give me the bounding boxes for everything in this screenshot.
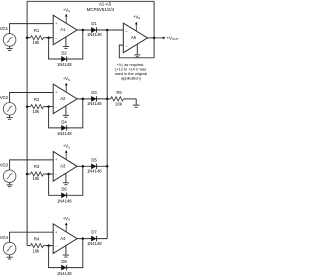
svg-text:1N4148: 1N4148: [57, 199, 72, 204]
svg-text:–: –: [125, 44, 127, 48]
op-amp A5: [123, 23, 147, 53]
wire A5 feedback (output to inverting input): [119, 45, 154, 58]
svg-text:R4: R4: [34, 237, 40, 242]
svg-text:1N4148: 1N4148: [87, 169, 102, 174]
svg-text:–: –: [55, 36, 57, 40]
wire A5 output: [148, 37, 155, 39]
wire VG4 to A4 noninverting input: [10, 232, 54, 242]
junction diode bus / D3: [106, 98, 109, 101]
resistor R5 10k (pulldown): [107, 98, 111, 100]
svg-text:+VS: +VS: [63, 216, 70, 222]
wire A2 output: [77, 98, 107, 100]
svg-text:1N4148: 1N4148: [87, 241, 102, 246]
svg-text:+VS: +VS: [133, 14, 140, 20]
resistor R3 10k: [27, 173, 31, 175]
+V_S supply arrow of A5: [135, 24, 137, 31]
svg-text:A3: A3: [60, 164, 66, 169]
svg-text:D8: D8: [61, 259, 67, 264]
svg-text:R3: R3: [34, 164, 40, 169]
svg-text:1N4148: 1N4148: [57, 62, 72, 67]
ground under VG3: [9, 182, 11, 185]
diode D4 1N4148 (feedback clamp): [61, 125, 66, 130]
svg-text:A1: A1: [60, 27, 66, 32]
svg-text:1N4148: 1N4148: [57, 131, 72, 136]
svg-text:VG4: VG4: [0, 235, 9, 240]
junction left bus / R1: [26, 36, 29, 39]
resistor R1 10k: [27, 37, 31, 39]
wire A4 output: [77, 238, 107, 240]
svg-text:D7: D7: [91, 230, 97, 235]
junction left bus / R2: [26, 105, 29, 108]
svg-text:+: +: [55, 158, 57, 162]
svg-text:+: +: [125, 30, 127, 34]
svg-text:VG3: VG3: [0, 163, 9, 168]
wire left feedback bus (V_OUT to R1-R4): [26, 1, 28, 245]
source VG4: [3, 242, 16, 255]
node A2 output: [82, 98, 85, 101]
source VG2: [3, 103, 16, 116]
+V_S supply arrow of A2: [65, 85, 67, 92]
svg-text:R1: R1: [34, 28, 40, 33]
svg-text:D3: D3: [91, 90, 97, 95]
junction diode bus / D1 / A5 input: [106, 29, 109, 32]
node A4 inverting input: [47, 244, 50, 247]
svg-text:(+12 to +14 V was: (+12 to +14 V was: [115, 68, 146, 72]
op-amp A4: [53, 224, 77, 254]
ground of A4: [65, 246, 67, 255]
svg-text:1N4148: 1N4148: [87, 101, 102, 106]
wire VG2 to A2 noninverting input: [10, 93, 54, 103]
svg-text:1N4148: 1N4148: [87, 32, 102, 37]
node A3 output: [82, 165, 85, 168]
diode D6 1N4148 (feedback clamp): [61, 193, 66, 198]
ground of R5: [135, 99, 137, 105]
wire feedback loop of A1: [49, 30, 83, 59]
node A1 inverting input: [47, 36, 50, 39]
wire top feedback bus: [27, 0, 154, 2]
svg-text:D6: D6: [61, 187, 67, 192]
wire VG1 to A1 noninverting input: [10, 24, 54, 34]
ground under VG1: [9, 46, 11, 49]
wire diode bus to A5 noninverting input: [107, 29, 123, 31]
svg-text:A5: A5: [131, 35, 137, 40]
svg-text:R2: R2: [34, 97, 40, 102]
ground of A3: [65, 174, 67, 183]
svg-text:10k: 10k: [33, 109, 41, 114]
svg-text:MCP6V51/2/4: MCP6V51/2/4: [87, 7, 115, 12]
node A4 output: [82, 237, 85, 240]
svg-text:used in the original: used in the original: [115, 72, 147, 76]
svg-text:R5: R5: [116, 90, 122, 95]
svg-text:VG1: VG1: [0, 26, 9, 31]
svg-text:A2: A2: [60, 96, 66, 101]
source VG3: [3, 170, 16, 183]
ground of A2: [65, 106, 67, 115]
svg-text:10k: 10k: [33, 176, 41, 181]
diode D8 1N4148 (feedback clamp): [61, 265, 66, 270]
wire feedback loop of A4: [49, 239, 83, 268]
svg-text:VG2: VG2: [0, 95, 9, 100]
wire diode-OR bus: [106, 30, 108, 239]
svg-text:1N4148: 1N4148: [57, 271, 72, 276]
svg-text:A4: A4: [60, 236, 66, 241]
svg-text:–: –: [55, 105, 57, 109]
junction left bus / R3: [26, 173, 29, 176]
svg-text:–: –: [55, 245, 57, 249]
resistor R2 10k: [27, 106, 31, 108]
svg-text:–: –: [55, 172, 57, 176]
wire A1 output: [77, 29, 107, 31]
svg-text:+VS: +VS: [63, 7, 70, 13]
ground under VG2: [9, 115, 11, 118]
diode D5 1N4148 (OR diode): [91, 164, 96, 169]
svg-text:10k: 10k: [33, 249, 41, 254]
svg-text:10k: 10k: [33, 40, 41, 45]
junction diode bus / D5: [106, 165, 109, 168]
output arrow +V_OUT: [154, 37, 163, 39]
wire A3 output: [77, 165, 107, 167]
svg-text:10k: 10k: [115, 102, 123, 107]
ground of A5: [136, 44, 138, 55]
svg-text:+: +: [55, 230, 57, 234]
node A2 inverting input: [47, 105, 50, 108]
+V_S supply arrow of A1: [65, 16, 67, 23]
diode D7 1N4148 (OR diode): [91, 236, 96, 241]
wire feedback loop of A3: [49, 166, 83, 195]
ground of A1: [65, 37, 67, 46]
diode D1 1N4148 (OR diode): [91, 27, 96, 32]
op-amp A2: [53, 84, 77, 114]
node A1 output: [82, 29, 85, 32]
svg-text:+VOUT: +VOUT: [167, 35, 179, 41]
svg-text:D1: D1: [91, 21, 97, 26]
wire feedback loop of A2: [49, 99, 83, 128]
svg-text:application): application): [121, 77, 141, 81]
svg-text:+: +: [55, 22, 57, 26]
op-amp A1: [53, 15, 77, 45]
op-amp A3: [53, 152, 77, 182]
diode D3 1N4148 (OR diode): [91, 96, 96, 101]
wire VG3 to A3 noninverting input: [10, 160, 54, 170]
svg-text:D5: D5: [91, 157, 97, 162]
svg-text:A1-A5: A1-A5: [99, 2, 112, 7]
svg-text:+: +: [55, 91, 57, 95]
diode D2 1N4148 (feedback clamp): [61, 56, 66, 61]
svg-text:D2: D2: [61, 50, 67, 55]
wire A5 output bus: [153, 1, 155, 58]
ground under VG4: [9, 255, 11, 258]
source VG1: [3, 34, 16, 47]
svg-text:+VS: +VS: [63, 144, 70, 150]
+V_S supply arrow of A3: [65, 152, 67, 159]
+V_S supply arrow of A4: [65, 225, 67, 232]
resistor R4 10k: [27, 245, 31, 247]
svg-text:D4: D4: [61, 119, 67, 124]
svg-text:+VS: +VS: [63, 76, 70, 82]
node A3 inverting input: [47, 173, 50, 176]
node A5 output: [153, 37, 156, 40]
